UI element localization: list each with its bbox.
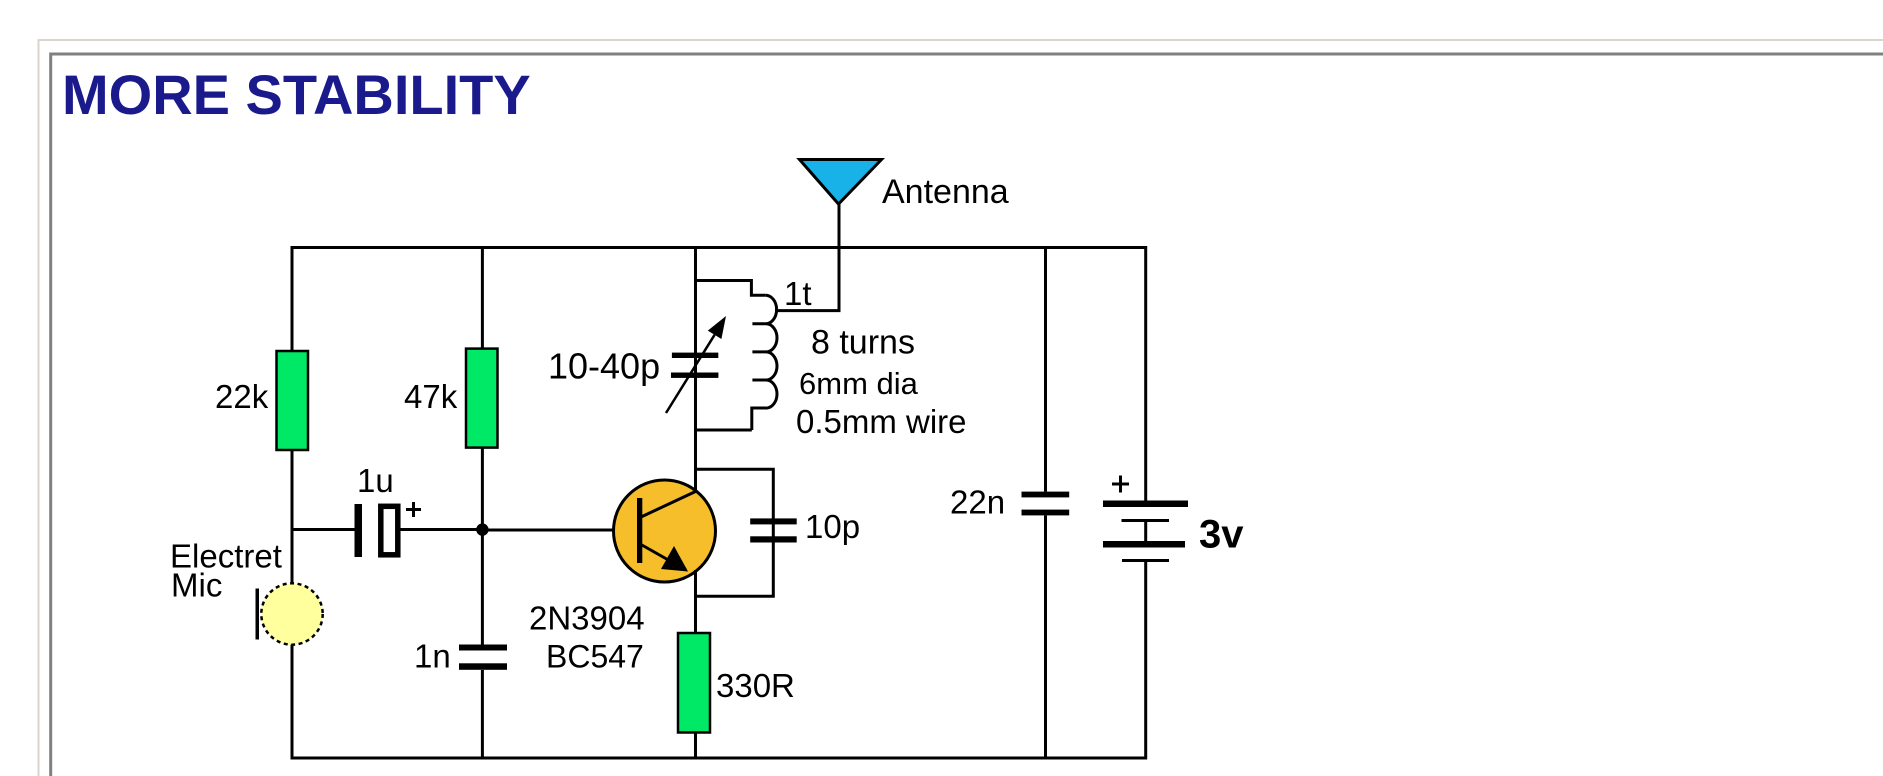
label 1n	[414, 637, 451, 674]
svg-text:1t: 1t	[784, 275, 812, 312]
label Antenna	[882, 173, 1009, 211]
label 3v	[1199, 513, 1244, 557]
label Electret Mic	[170, 538, 282, 604]
label 47k	[404, 378, 458, 415]
svg-text:22n: 22n	[950, 484, 1005, 521]
svg-text:1n: 1n	[414, 637, 451, 674]
capacitor 22n	[1022, 492, 1070, 516]
wire top bus	[291, 246, 1148, 249]
svg-text:10-40p: 10-40p	[548, 346, 660, 387]
wire base	[482, 529, 637, 532]
wire left rail (22k / mic branch)	[291, 246, 294, 760]
wire bottom bus	[291, 757, 1148, 760]
label 330R	[716, 667, 795, 704]
svg-text:MORE STABILITY: MORE STABILITY	[62, 63, 531, 126]
resistor 330R	[678, 633, 710, 733]
label 8 turns 6mm dia 0.5mm wire	[796, 323, 967, 440]
title MORE STABILITY	[62, 63, 531, 126]
label 10-40p	[548, 346, 660, 387]
wire antenna tap 1t	[775, 309, 841, 312]
wire antenna lead	[838, 204, 841, 311]
wire emitter to bottom bus	[694, 733, 697, 760]
wire battery rail	[1144, 246, 1147, 760]
capacitor 10p	[750, 518, 797, 542]
svg-text:0.5mm wire: 0.5mm wire	[796, 403, 967, 440]
svg-text:2N3904: 2N3904	[529, 599, 645, 636]
battery 3v	[1103, 501, 1188, 563]
label 1t	[784, 275, 812, 312]
capacitor 1u electrolytic	[355, 504, 398, 557]
svg-text:6mm dia: 6mm dia	[799, 366, 919, 401]
electret microphone	[256, 583, 323, 644]
svg-text:8 turns: 8 turns	[811, 323, 915, 361]
inductor L1 coil	[694, 281, 777, 431]
label 22n	[950, 484, 1005, 521]
svg-text:47k: 47k	[404, 378, 458, 415]
wire 22n rail	[1044, 246, 1047, 760]
plus sign battery polarity	[1112, 476, 1129, 493]
wire 10p loop	[694, 469, 773, 596]
svg-text:22k: 22k	[215, 378, 269, 415]
resistor 47k	[466, 349, 498, 448]
resistor 22k	[277, 351, 309, 450]
node base junction	[476, 523, 488, 535]
wire emitter	[694, 570, 697, 633]
label 22k	[215, 378, 269, 415]
capacitor 10-40p trimmer	[666, 316, 726, 413]
svg-text:330R: 330R	[716, 667, 795, 704]
label 2N3904 BC547	[529, 599, 645, 674]
label 1u	[357, 462, 394, 499]
transistor Q1	[614, 480, 716, 582]
svg-text:1u: 1u	[357, 462, 394, 499]
wire 47k rail	[481, 246, 484, 760]
wire collector rail (tank)	[694, 246, 697, 492]
svg-text:Antenna: Antenna	[882, 173, 1009, 211]
svg-text:BC547: BC547	[546, 639, 644, 675]
svg-text:3v: 3v	[1199, 513, 1244, 557]
label 10p	[805, 508, 860, 545]
svg-text:Mic: Mic	[171, 567, 222, 604]
svg-text:10p: 10p	[805, 508, 860, 545]
wire 1u coupling branch	[291, 528, 483, 531]
plus sign 1u polarity	[406, 502, 421, 517]
antenna	[800, 160, 882, 205]
capacitor 1n	[459, 645, 507, 670]
